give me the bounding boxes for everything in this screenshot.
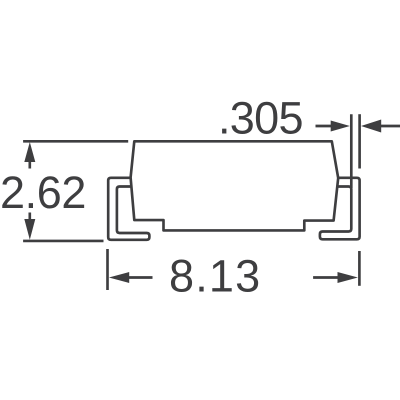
dimension line .305 inner (lead inner face) xyxy=(350,114,353,188)
.305 right arrow shaft xyxy=(381,125,400,128)
svg-text:8.13: 8.13 xyxy=(169,251,261,302)
svg-text:.305: .305 xyxy=(218,93,303,144)
8.13 arrowhead pointing right xyxy=(338,272,358,283)
8.13 right extension line xyxy=(358,251,361,286)
package body outline xyxy=(131,141,339,230)
2.62 bottom extension line (seating plane) xyxy=(23,240,103,243)
8.13 left extension line xyxy=(106,249,109,290)
right lead (formed terminal) xyxy=(320,178,360,240)
left lead (formed terminal) xyxy=(108,178,149,240)
8.13 arrowhead pointing left xyxy=(109,272,129,283)
2.62 top extension line xyxy=(23,140,128,143)
svg-text:2.62: 2.62 xyxy=(0,167,86,218)
2.62 down arrow shaft xyxy=(28,213,31,221)
8.13 right arrow shaft xyxy=(313,276,338,279)
dimension line .305 outer (lead outer face) xyxy=(358,114,361,168)
.305 left arrow shaft xyxy=(316,125,333,128)
8.13 left arrow shaft xyxy=(128,276,153,279)
2.62 arrowhead pointing up xyxy=(24,142,35,162)
2.62 arrowhead pointing down xyxy=(24,219,35,240)
.305 arrowhead pointing right at inner line xyxy=(331,121,350,132)
2.62 up arrow shaft xyxy=(28,161,31,169)
.305 arrowhead pointing left at outer line xyxy=(361,120,381,133)
